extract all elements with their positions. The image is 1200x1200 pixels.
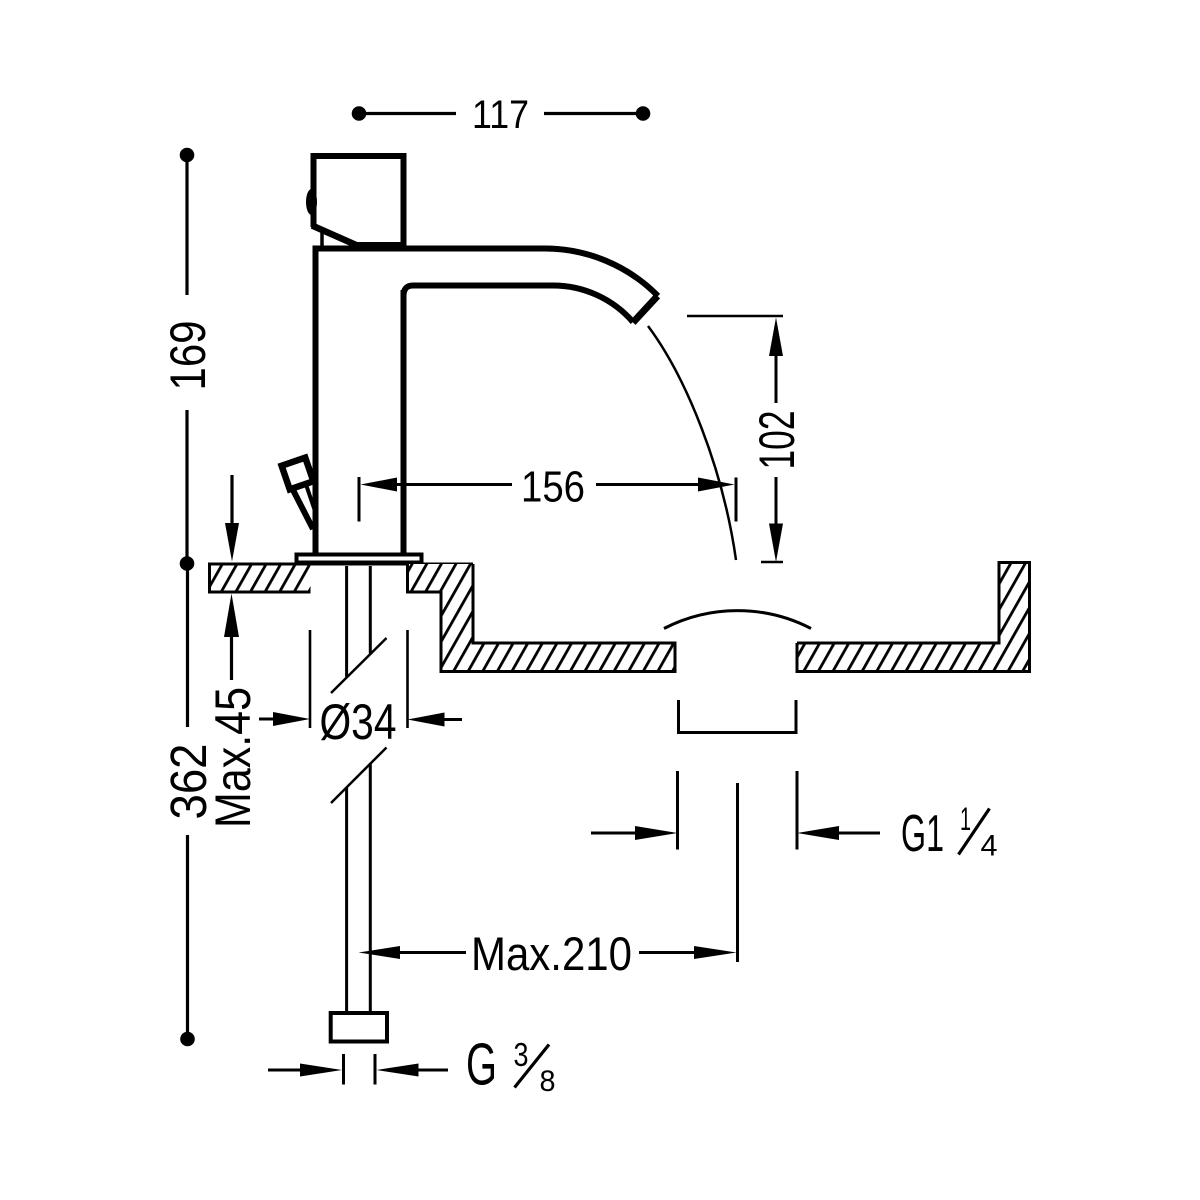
faucet handle: bottom edge	[356, 242, 406, 247]
faucet handle: right edge	[401, 153, 407, 247]
dimension O34: left line	[259, 718, 276, 721]
countertop: middle section outline	[408, 564, 676, 672]
dimension G 3/8: left arrowhead	[300, 1064, 342, 1077]
dimension 156: right tick	[735, 478, 738, 522]
countertop: left hatched section	[210, 564, 311, 592]
faucet spout: inner curve	[404, 286, 634, 323]
faucet side lever knob (tilted square)	[282, 458, 314, 490]
dimension 102: top arrowhead (up)	[769, 318, 783, 357]
countertop: left section outline	[210, 564, 311, 592]
svg-text:G1: G1	[901, 805, 944, 863]
supply pipe: right line upper segment	[369, 566, 372, 654]
drain pipe: right wall	[795, 700, 798, 733]
dimension Max.210: right line	[639, 951, 698, 954]
dimension 102: upper line	[775, 352, 778, 403]
dimension 117 top: line right	[544, 112, 643, 115]
dimension 169 left: top dot	[180, 148, 195, 163]
faucet handle: small vertical line under lever	[320, 229, 324, 250]
dimension 169 left: upper line	[185, 155, 188, 295]
svg-text:8: 8	[540, 1065, 556, 1098]
dimension G 3/8: right arrowhead	[377, 1064, 419, 1077]
countertop: right hatched section with wall	[797, 563, 1030, 672]
svg-text:102: 102	[749, 411, 805, 470]
svg-text:Max.210: Max.210	[471, 927, 632, 980]
supply pipe: lower break diagonal	[331, 748, 387, 804]
supply pipe: upper break diagonal	[331, 638, 387, 693]
supply pipe: left line upper segment	[345, 566, 348, 677]
svg-text:G: G	[466, 1032, 497, 1098]
dimension G 3/8: right line	[415, 1069, 448, 1072]
faucet body: right edge	[401, 290, 407, 553]
dimension Max.210: left line	[396, 951, 466, 954]
faucet handle: top edge	[311, 153, 407, 159]
faucet side lever rod: front edge	[293, 489, 314, 529]
svg-text:Max.45: Max.45	[205, 687, 261, 828]
dimension 117 top: line left	[359, 112, 456, 115]
dimension 362 left: bottom dot	[180, 1032, 195, 1047]
dimension Max.210: right arrowhead	[694, 946, 737, 959]
dimension G1 1/4: right line	[835, 832, 880, 835]
dimension 169 left: lower line	[185, 410, 188, 564]
dimension O34: right line	[444, 718, 462, 721]
dimension G 3/8: left line	[268, 1069, 304, 1072]
faucet spout: tip edge	[633, 296, 658, 323]
supply pipe: G3/8 connector nut	[331, 1013, 387, 1042]
dimension O34: right arrowhead	[408, 713, 445, 727]
dimension 156: right arrowhead	[698, 478, 735, 492]
dimension G1 1/4: left tick	[676, 771, 679, 850]
dimension 169 left: bottom dot	[180, 556, 195, 571]
dimension Max.45: upper arrowhead (down)	[225, 523, 239, 562]
dimension Max.210: left arrowhead	[359, 946, 401, 959]
dimension 156: left line	[394, 483, 512, 486]
drain pipe: left wall	[677, 700, 680, 733]
supply pipe: left line lower segment	[345, 788, 348, 1014]
countertop: middle hatched section with step	[408, 564, 676, 672]
dimension 102: bottom arrowhead (down)	[769, 524, 783, 563]
dimension G1 1/4: left arrowhead	[635, 826, 678, 840]
dimension 156: left arrowhead	[361, 478, 398, 492]
dimension 117 top: left dot	[352, 106, 367, 121]
svg-text:169: 169	[160, 321, 216, 391]
dimension G 3/8: left tick	[342, 1054, 345, 1085]
dimension 156: left tick	[358, 477, 361, 522]
dimension Max.45: upper arrow line	[230, 475, 233, 526]
svg-text:3: 3	[514, 1036, 529, 1073]
dimension 156: right line	[596, 483, 701, 486]
svg-text:117: 117	[472, 93, 529, 137]
svg-text:1: 1	[960, 801, 971, 837]
dimension O34: left extension line	[309, 630, 312, 728]
faucet handle: left edge	[311, 153, 317, 227]
dimension 102: bottom tick line	[761, 561, 783, 564]
dimension 117 top: right dot	[636, 106, 651, 121]
drain pipe: bottom	[677, 731, 798, 734]
dimension G 3/8: fraction slash	[515, 1045, 550, 1088]
supply pipe: right line lower segment	[369, 764, 372, 1014]
faucet base flange	[297, 555, 422, 563]
countertop: right section outline	[797, 563, 1030, 672]
svg-text:156: 156	[521, 463, 585, 512]
dimension G1 1/4: right arrowhead	[797, 826, 839, 840]
svg-text:4: 4	[981, 830, 998, 863]
dimension 102: lower line	[775, 477, 778, 528]
dimension Max.45: lower arrow line	[230, 635, 233, 680]
faucet side lever rod: back edge	[306, 483, 316, 511]
dimension G1 1/4: fraction slash	[959, 809, 990, 855]
drain axis line	[736, 783, 739, 962]
svg-text:Ø34: Ø34	[320, 694, 397, 750]
faucet spout: top outer curve	[313, 249, 659, 297]
dimension O34: left arrowhead	[273, 712, 310, 726]
dimension O34: right extension line	[406, 630, 409, 728]
faucet handle: lever diagonal	[312, 226, 360, 247]
water trajectory arc	[648, 326, 736, 560]
faucet body: left edge	[313, 246, 319, 554]
dimension G 3/8: right tick	[374, 1054, 377, 1085]
dimension G1 1/4: left line	[591, 832, 640, 835]
dimension 362 left: upper line	[186, 564, 189, 728]
dimension 362 left: lower line	[186, 835, 189, 1039]
dimension Max.45: lower arrowhead (up)	[224, 594, 239, 638]
drain hump arc	[664, 611, 811, 629]
faucet handle: pivot pin bump	[306, 189, 317, 215]
countertop: deck top line under flange	[210, 563, 474, 566]
dimension 102: top tick line	[687, 315, 783, 318]
dimension G1 1/4: right tick	[796, 771, 799, 850]
